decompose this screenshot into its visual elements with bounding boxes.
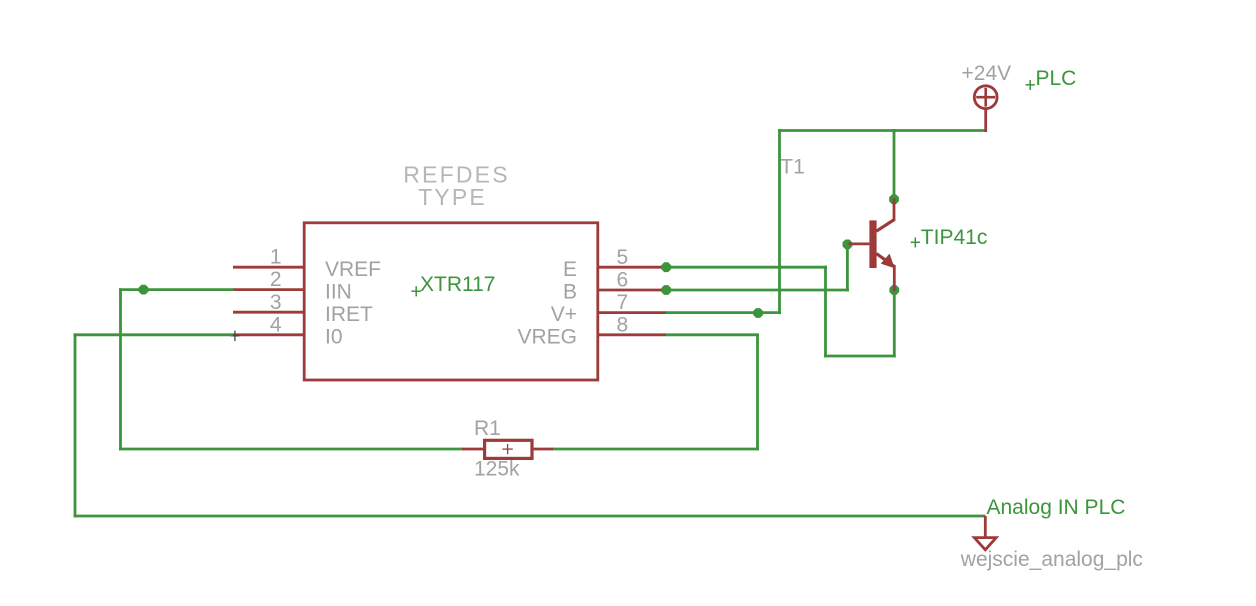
svg-text:IRET: IRET [325, 303, 373, 326]
wire pin2 net vertical [119, 288, 122, 450]
svg-text:3: 3 [270, 291, 282, 314]
collector diagonal [876, 220, 894, 232]
svg-text:6: 6 [617, 269, 629, 292]
IC U1 XTR117 box [304, 223, 598, 380]
svg-text:T1: T1 [780, 155, 805, 178]
pin 6 B [597, 289, 667, 292]
pin 4 I0 [233, 333, 306, 336]
svg-text:Analog IN PLC: Analog IN PLC [987, 496, 1126, 519]
svg-text:+24V: +24V [962, 62, 1012, 85]
wire pin5 E horizontal [666, 266, 827, 269]
pin 2 IIN [233, 288, 306, 291]
wire R1 left horizontal [119, 448, 463, 451]
wire pin6 B horizontal [666, 289, 849, 292]
svg-text:PLC: PLC [1036, 67, 1077, 90]
supply pin [984, 109, 987, 133]
svg-text:4: 4 [270, 313, 282, 336]
svg-text:1: 1 [270, 246, 282, 269]
wire emitter vertical [893, 290, 896, 357]
wire pin7 V+ horizontal [666, 311, 781, 314]
wire R1 right horizontal [551, 448, 759, 451]
svg-text:B: B [563, 280, 577, 303]
svg-text:R1: R1 [474, 417, 501, 440]
wire collector branch vertical [893, 129, 896, 199]
origin cross of PLC label [1026, 80, 1035, 90]
pin 3 IRET [233, 311, 306, 314]
junction D4 (pin7 V+) [753, 308, 763, 318]
svg-text:I0: I0 [325, 326, 343, 349]
wire pin4 net horizontal [74, 333, 234, 336]
base bar [869, 220, 876, 268]
origin cross at pin 4 end [230, 331, 239, 341]
pin 7 V+ [597, 311, 667, 314]
wire pin2 net horizontal [119, 288, 234, 291]
Analog IN PLC connector arrow [974, 516, 996, 550]
svg-text:125k: 125k [474, 457, 520, 480]
pin 1 VREF [233, 266, 306, 269]
junction D7 (emitter) [889, 285, 899, 295]
origin cross of XTR117 label [411, 286, 421, 296]
supply symbol +24V [974, 86, 997, 132]
svg-text:8: 8 [617, 313, 629, 336]
svg-text:2: 2 [270, 268, 282, 291]
wire pin8 VREG horizontal [666, 333, 759, 336]
pin 8 VREG [597, 333, 667, 336]
wire pin5 E vertical [824, 266, 827, 358]
origin cross of TIP41c label [911, 238, 920, 248]
wire emitter bottom horizontal [824, 355, 896, 358]
base pin [849, 242, 870, 245]
wire +24V rail horizontal [778, 129, 987, 132]
svg-text:E: E [563, 258, 577, 281]
svg-text:5: 5 [617, 246, 629, 269]
svg-text:7: 7 [617, 291, 629, 314]
junction D1 (pin2 net) [139, 285, 149, 295]
wire bottom long horizontal to PLC [74, 515, 986, 518]
svg-text:VREG: VREG [517, 326, 577, 349]
svg-text:wejscie_analog_plc: wejscie_analog_plc [960, 548, 1143, 571]
wire V+ vertical up to +24V rail [778, 129, 781, 314]
transistor Q1 T1 TIP41c [849, 199, 895, 292]
emitter arrowhead [881, 254, 895, 269]
junction D3 (pin6 B) [661, 285, 671, 295]
svg-text:V+: V+ [551, 303, 577, 326]
junction D6 (collector) [889, 194, 899, 204]
svg-text:XTR117: XTR117 [420, 273, 495, 296]
collector pin vertical [893, 199, 896, 222]
junction D2 (pin5 E) [661, 262, 671, 272]
wire VREG vertical down [756, 333, 759, 450]
resistor R1 [462, 440, 553, 458]
pin 5 E [597, 266, 667, 269]
wire pin6 B vertical up to base [846, 244, 849, 291]
svg-text:IIN: IIN [325, 280, 352, 303]
wire pin4 net vertical [74, 333, 77, 517]
emitter pin vertical [893, 265, 896, 291]
junction D5 (base) [843, 240, 853, 250]
svg-text:TYPE: TYPE [418, 184, 487, 210]
svg-text:VREF: VREF [325, 258, 381, 281]
emitter diagonal [876, 254, 894, 267]
svg-text:TIP41c: TIP41c [921, 226, 988, 249]
